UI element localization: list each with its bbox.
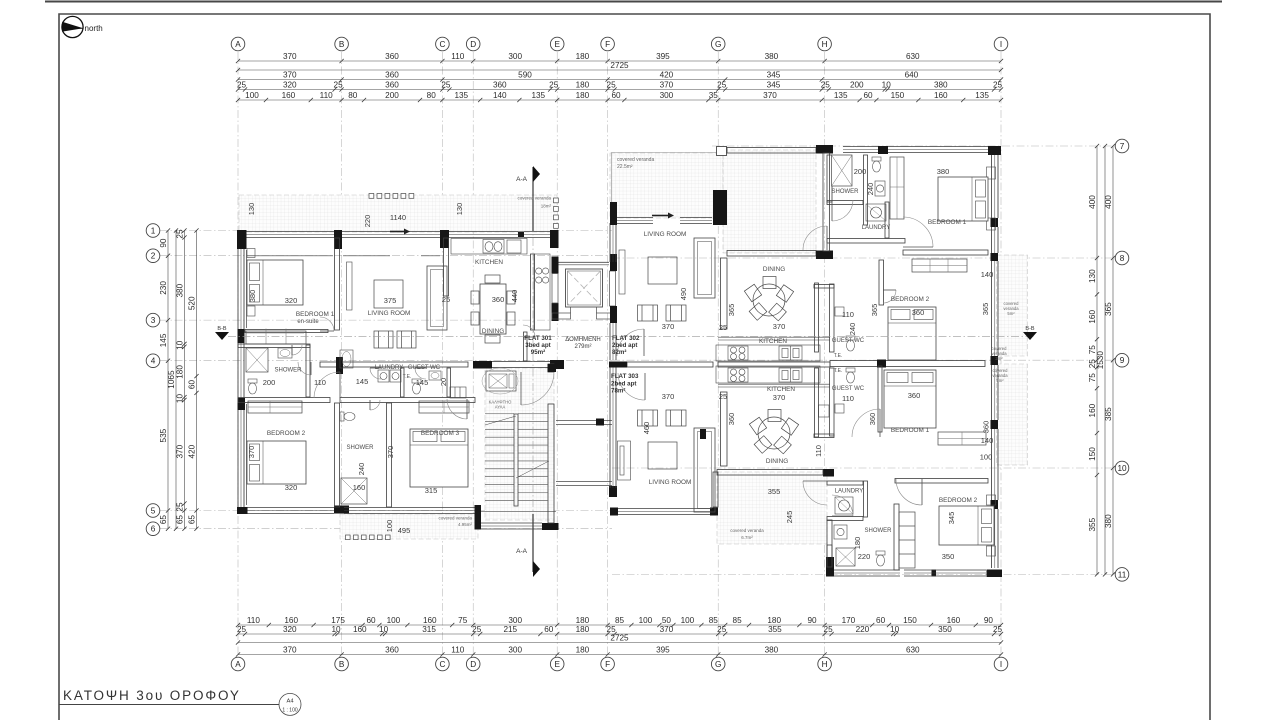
svg-text:LIVING ROOM: LIVING ROOM [649, 479, 692, 486]
window living302 north east [680, 218, 712, 224]
svg-text:35: 35 [709, 91, 719, 100]
svg-text:135: 135 [454, 91, 468, 100]
svg-text:110: 110 [320, 91, 333, 100]
partition bedroom2-303 north [895, 479, 988, 484]
bed bedroom2 flat302 [888, 307, 936, 360]
svg-text:240: 240 [848, 323, 857, 336]
svg-text:320: 320 [283, 81, 297, 90]
wall west flat303 low [610, 470, 616, 488]
tv unit living room [347, 262, 353, 310]
bedside tables bedroom1 [247, 249, 255, 317]
label TE flat302 [834, 353, 843, 359]
section marker A-A bottom [516, 514, 540, 577]
svg-text:20: 20 [439, 378, 448, 386]
svg-text:25: 25 [719, 323, 727, 332]
svg-text:H: H [822, 660, 828, 669]
svg-text:535: 535 [159, 428, 168, 442]
svg-text:370: 370 [662, 322, 675, 331]
column grid lines A-I [238, 52, 1001, 654]
wall stair east lower [548, 404, 554, 523]
door laundry [370, 368, 381, 379]
partition bedroom2-302 west [879, 260, 884, 305]
svg-text:60: 60 [863, 91, 873, 100]
grid bubble 7 right [1115, 139, 1129, 153]
svg-text:370: 370 [773, 393, 786, 402]
svg-text:200: 200 [385, 91, 399, 100]
bed bedroom1 flat302 [938, 177, 988, 221]
toilet guest wc flat301 [412, 379, 421, 394]
sliding door mark living302 [652, 213, 674, 219]
washing machine laundry 302 [866, 204, 886, 221]
window bedroom2 south [248, 508, 335, 514]
svg-text:BEDROOM 2: BEDROOM 2 [939, 497, 978, 504]
corner post veranda NW [717, 147, 727, 156]
grid bubble A bottom [231, 657, 245, 671]
partition bedroom1-303 west [878, 366, 882, 432]
toilet wc flat302 [872, 157, 881, 172]
window bedroom2 west [238, 410, 244, 507]
top dimension chain: overall 2725 [236, 61, 1003, 72]
window shower north [843, 147, 878, 153]
label veranda 302 [617, 157, 654, 170]
label bedroom1 flat301 [296, 311, 335, 325]
svg-text:D: D [470, 660, 476, 669]
bottom dimension chain: openings [236, 616, 1003, 627]
svg-text:180: 180 [176, 365, 185, 379]
column west bedroom2 [238, 398, 246, 410]
svg-text:440: 440 [510, 290, 519, 303]
svg-text:1530: 1530 [1096, 351, 1105, 370]
svg-text:110: 110 [842, 394, 854, 403]
svg-text:400: 400 [1104, 195, 1113, 209]
svg-text:ΚΑΤΟΨΗ 3ου ΟΡΟΦΟΥ: ΚΑΤΟΨΗ 3ου ΟΡΟΦΟΥ [63, 688, 241, 703]
svg-text:370: 370 [662, 392, 675, 401]
wall hall west [823, 153, 830, 251]
svg-text:10: 10 [890, 625, 900, 634]
sofa living room [427, 266, 447, 330]
covered veranda north of flat 301 [239, 195, 557, 232]
column C1 [440, 230, 449, 248]
right dimension chain: wall offsets [1088, 144, 1099, 577]
svg-text:25: 25 [821, 81, 831, 90]
svg-text:110: 110 [247, 616, 260, 625]
kitchen303 divider lines [718, 384, 830, 387]
grid bubble F top [601, 37, 615, 51]
coffee table living room [374, 280, 403, 308]
svg-text:345: 345 [767, 81, 781, 90]
svg-text:BEDROOM 1: BEDROOM 1 [296, 311, 335, 318]
svg-text:370: 370 [386, 446, 395, 459]
grid bubble C top [436, 37, 450, 51]
partition kitchen/wc flat302 [815, 283, 819, 352]
dining table round flat302 [744, 277, 793, 321]
partition dining302 west [721, 258, 728, 329]
label guest wc flat301 [408, 365, 441, 371]
top dimension chain: wall offsets [236, 81, 1003, 92]
grid bubble 8 right [1115, 251, 1129, 265]
svg-text:160: 160 [284, 616, 298, 625]
svg-text:370: 370 [247, 446, 256, 459]
grid bubble G top [711, 37, 725, 51]
basin guest wc flat303 [835, 404, 844, 413]
door guest wc [415, 368, 426, 379]
svg-text:75: 75 [458, 616, 468, 625]
wall west flat303 [610, 364, 616, 390]
svg-text:385: 385 [1104, 407, 1113, 421]
svg-text:1140: 1140 [390, 213, 406, 222]
wardrobe bedroom1 [246, 329, 306, 345]
svg-text:150: 150 [1088, 447, 1097, 461]
svg-text:315: 315 [425, 486, 438, 495]
covered veranda south of flat 301 [340, 514, 478, 539]
svg-text:SHOWER: SHOWER [865, 528, 893, 534]
svg-text:75: 75 [1088, 373, 1097, 383]
svg-text:360: 360 [385, 71, 399, 80]
in-plan dimension labels [247, 167, 993, 561]
svg-text:360: 360 [868, 413, 877, 426]
window bedroom1-303 east [992, 365, 999, 420]
kitchen counter flat303 [716, 366, 820, 383]
svg-text:FLAT 302: FLAT 302 [612, 335, 640, 342]
svg-text:145: 145 [356, 377, 369, 386]
lift machine box staircase [486, 371, 516, 391]
partition dining303 west [721, 392, 728, 466]
window kitchen north [449, 232, 518, 238]
partition laundry north 303 [827, 481, 863, 485]
veranda 303 north wall [717, 470, 823, 476]
svg-text:180: 180 [576, 625, 590, 634]
column right building west 2 [610, 306, 617, 323]
svg-text:B: B [339, 40, 345, 49]
svg-text:365: 365 [870, 304, 879, 317]
svg-text:2725: 2725 [610, 61, 629, 70]
svg-text:380: 380 [1104, 514, 1113, 528]
svg-text:630: 630 [906, 646, 920, 655]
window west mid [610, 323, 616, 360]
kitchen302 divider lines [718, 337, 830, 340]
svg-text:A-A: A-A [516, 176, 528, 183]
partition bedrooms north west [238, 398, 330, 403]
grid bubble 5 left [146, 504, 160, 518]
svg-text:25: 25 [442, 295, 450, 304]
partition laundry/wc [401, 368, 405, 397]
svg-text:65: 65 [188, 515, 197, 525]
svg-text:200: 200 [854, 167, 867, 176]
window living room north [342, 232, 440, 238]
wardrobe line bedroom1 [245, 330, 328, 333]
label laundry flat303 [835, 489, 864, 495]
column hall SW [816, 251, 833, 260]
grid bubble 4 left [146, 354, 160, 368]
column east 2 [991, 253, 999, 261]
column east row9 [991, 356, 999, 365]
svg-text:G: G [715, 40, 721, 49]
svg-text:10: 10 [176, 394, 185, 404]
svg-text:65: 65 [176, 515, 185, 525]
grid bubble F bottom [601, 657, 615, 671]
svg-text:150: 150 [891, 91, 905, 100]
svg-text:145: 145 [159, 333, 168, 347]
dining chairs flat301 [471, 275, 515, 343]
svg-text:6.7m²: 6.7m² [741, 535, 753, 540]
divider wall flats west part [627, 362, 713, 367]
label veranda east 303 [0, 0, 1, 1]
partition laundry east 303 [864, 481, 868, 517]
column west mid [238, 329, 245, 343]
label living room flat301 [368, 310, 411, 317]
section marker B-B left [215, 326, 229, 340]
grid bubble G bottom [711, 657, 725, 671]
svg-text:360: 360 [982, 421, 991, 434]
column stair SE [542, 523, 559, 530]
svg-text:60: 60 [366, 616, 376, 625]
svg-text:60: 60 [876, 616, 886, 625]
svg-text:180: 180 [576, 91, 590, 100]
covered veranda flat 303 east [997, 364, 1028, 465]
svg-text:110: 110 [814, 445, 823, 457]
svg-text:BEDROOM 1: BEDROOM 1 [928, 219, 967, 226]
grid bubble 3 left [146, 313, 160, 327]
svg-text:85: 85 [615, 616, 625, 625]
shower tray mid [341, 478, 367, 504]
svg-text:GUEST WC: GUEST WC [832, 386, 865, 392]
svg-text:I: I [1000, 40, 1002, 49]
window bedroom2-302 east [992, 261, 999, 356]
grid bubble I top [994, 37, 1008, 51]
left dimension chain: rooms [188, 228, 199, 530]
svg-text:180: 180 [576, 616, 590, 625]
door ensuite inner [292, 345, 302, 355]
svg-text:95m²: 95m² [531, 349, 545, 356]
svg-text:140: 140 [981, 270, 994, 279]
svg-text:160: 160 [1088, 403, 1097, 417]
window bedroom2-303 east [992, 509, 999, 568]
svg-text:B: B [339, 660, 345, 669]
svg-text:3m²: 3m² [995, 356, 1003, 361]
top dimension chain: openings [236, 91, 1003, 102]
door bedroom1 [320, 317, 334, 331]
svg-text:BEDROOM 2: BEDROOM 2 [891, 296, 930, 303]
svg-text:630: 630 [906, 52, 920, 61]
svg-text:85: 85 [733, 616, 743, 625]
svg-text:22.5m²: 22.5m² [617, 164, 633, 170]
label TE flat303 [834, 368, 843, 374]
svg-text:1 : 100: 1 : 100 [282, 708, 298, 714]
column right building west 4 [609, 486, 617, 497]
partition hall strip north east [478, 362, 563, 368]
label veranda south 301 [438, 516, 472, 528]
svg-text:80: 80 [348, 91, 358, 100]
staircase central rail [514, 414, 518, 506]
grid bubble 2 left [146, 249, 160, 263]
svg-text:BEDROOM 2: BEDROOM 2 [267, 430, 306, 437]
svg-text:380: 380 [934, 81, 948, 90]
svg-text:230: 230 [159, 281, 168, 295]
counter front kitchen east [531, 254, 535, 330]
label dining flat302 [763, 266, 785, 273]
bedside tables bedroom2 303 [987, 495, 996, 556]
column veranda NE [816, 145, 833, 154]
svg-text:ΑΥΛΑ: ΑΥΛΑ [495, 405, 506, 410]
svg-text:160: 160 [423, 616, 437, 625]
column living303 east [700, 429, 706, 439]
svg-text:60: 60 [611, 91, 621, 100]
corner living303 SW [610, 508, 618, 516]
core column lift NW [552, 257, 559, 274]
partition guestwc west 302 [830, 284, 835, 352]
svg-text:25: 25 [237, 81, 247, 90]
kitchen counter east with hob [534, 254, 550, 330]
partition kitchen/wc flat303 [815, 368, 819, 437]
svg-text:160: 160 [282, 91, 296, 100]
door shower 303 [832, 495, 853, 516]
svg-text:380: 380 [248, 290, 257, 303]
toilet guest wc flat302 [846, 336, 855, 351]
svg-text:365: 365 [727, 304, 736, 317]
svg-text:3: 3 [151, 316, 156, 325]
svg-text:360: 360 [492, 295, 505, 304]
sofa living room 302 [694, 238, 715, 298]
left dimension chain: grid spans [159, 228, 170, 530]
svg-text:420: 420 [188, 444, 197, 458]
core column lift SW [552, 303, 559, 321]
label bedroom2 flat301 [267, 430, 306, 437]
grid bubble H top [818, 37, 832, 51]
section line B-B horizontal [228, 335, 1036, 337]
svg-text:LAUNDRY: LAUNDRY [862, 225, 891, 231]
bottom dimension chain: overall 2725 [236, 634, 1003, 645]
basin wc flat302 [875, 181, 885, 196]
label bedroom2 flat302 [891, 296, 930, 303]
svg-text:145: 145 [416, 378, 429, 387]
covered veranda flat 302 west part [610, 153, 723, 218]
bottom dimension chain: grid spans [236, 646, 1003, 657]
svg-text:350: 350 [938, 625, 952, 634]
svg-text:370: 370 [176, 444, 185, 458]
column B4 strip [336, 357, 343, 374]
window living302 west [610, 223, 616, 262]
wall east veranda [992, 227, 999, 253]
window south flat303 1 [834, 570, 900, 576]
partition laundry east 302 [885, 202, 889, 238]
partition laundry south 302 [827, 239, 905, 244]
svg-text:320: 320 [285, 483, 298, 492]
svg-text:160: 160 [353, 625, 367, 634]
column veranda302 west [610, 202, 617, 225]
partition shower/wc 302 [864, 155, 868, 225]
partition guestwc north 302 [814, 285, 834, 289]
label bedroom3 flat301 [421, 430, 460, 437]
svg-text:10: 10 [379, 625, 389, 634]
window bedroom1 east [992, 155, 999, 218]
column B1 [334, 230, 342, 249]
grid bubble 1 left [146, 224, 160, 238]
column east 3 [991, 420, 999, 429]
svg-text:I: I [1000, 660, 1002, 669]
wall stair south [481, 523, 542, 529]
svg-text:100: 100 [639, 616, 653, 625]
svg-text:200: 200 [850, 81, 864, 90]
dining table round flat303 [749, 410, 798, 454]
grid bubble 6 left [146, 522, 160, 536]
svg-text:175: 175 [331, 616, 345, 625]
svg-text:60: 60 [544, 625, 554, 634]
svg-text:360: 360 [385, 81, 399, 90]
window living303 west [610, 390, 616, 470]
column E1 [550, 230, 559, 248]
wall living303 east low [713, 472, 718, 507]
bed bedroom1 flat303 [884, 370, 936, 428]
svg-text:170: 170 [842, 616, 856, 625]
sheet top edge line [45, 1, 1222, 3]
svg-text:130: 130 [455, 203, 464, 216]
svg-text:A-A: A-A [516, 548, 528, 555]
door shower mid [370, 400, 380, 410]
veranda north wall [727, 148, 816, 154]
svg-text:490: 490 [679, 288, 688, 301]
svg-text:E: E [554, 660, 560, 669]
svg-text:110: 110 [842, 310, 854, 319]
window living302 north west [617, 218, 653, 224]
window kitchen north 2 [524, 232, 550, 238]
door bedroom1 302 [903, 217, 933, 247]
tv unit living 302 [619, 250, 625, 294]
svg-text:355: 355 [1088, 517, 1097, 531]
svg-text:3bed apt: 3bed apt [525, 342, 550, 349]
partition shower west 303 [827, 520, 832, 567]
svg-text:C: C [439, 40, 445, 49]
svg-text:25: 25 [472, 625, 482, 634]
svg-text:360: 360 [385, 52, 399, 61]
toilet guest wc flat303 [846, 368, 855, 383]
svg-text:GUEST WC: GUEST WC [832, 338, 865, 344]
veranda south wall [727, 251, 816, 257]
label veranda east 302b [991, 346, 1007, 361]
right dimension chain: grid spans [1104, 144, 1115, 577]
svg-text:SHOWER: SHOWER [347, 445, 375, 451]
svg-text:360: 360 [493, 81, 507, 90]
svg-text:4.95m²: 4.95m² [458, 522, 473, 527]
cabinet T.E. flat301 [450, 387, 466, 398]
svg-text:10: 10 [331, 625, 341, 634]
grid bubble A top [231, 37, 245, 51]
wardrobe bedroom2 302 [912, 259, 967, 272]
svg-text:en-suite: en-suite [297, 319, 319, 325]
svg-text:85: 85 [709, 616, 719, 625]
svg-text:BEDROOM 3: BEDROOM 3 [421, 430, 460, 437]
partition wc east [447, 368, 451, 397]
kitchen counter flat302 [716, 345, 820, 361]
label living room flat302 [644, 231, 687, 238]
door bedroom1 303 [852, 409, 880, 437]
top dimension chain: grid spans [236, 52, 1003, 63]
toilet shower flat303 [876, 551, 885, 566]
window bedroom1 west [238, 249, 244, 329]
wall east flat303 [992, 429, 999, 500]
basin shower flat303 [834, 525, 847, 539]
partition shower west 302 [827, 155, 832, 202]
partition ensuite north [238, 344, 310, 348]
svg-text:B-B: B-B [217, 326, 227, 332]
shower tray ensuite [246, 348, 268, 372]
corridor wall flat301 entry [524, 332, 528, 361]
grid bubble 11 right [1115, 568, 1129, 582]
svg-text:KITCHEN: KITCHEN [759, 338, 787, 345]
svg-text:25: 25 [176, 229, 185, 239]
svg-text:130: 130 [247, 203, 256, 216]
svg-text:375: 375 [384, 296, 397, 305]
svg-text:B-B: B-B [1025, 326, 1035, 332]
